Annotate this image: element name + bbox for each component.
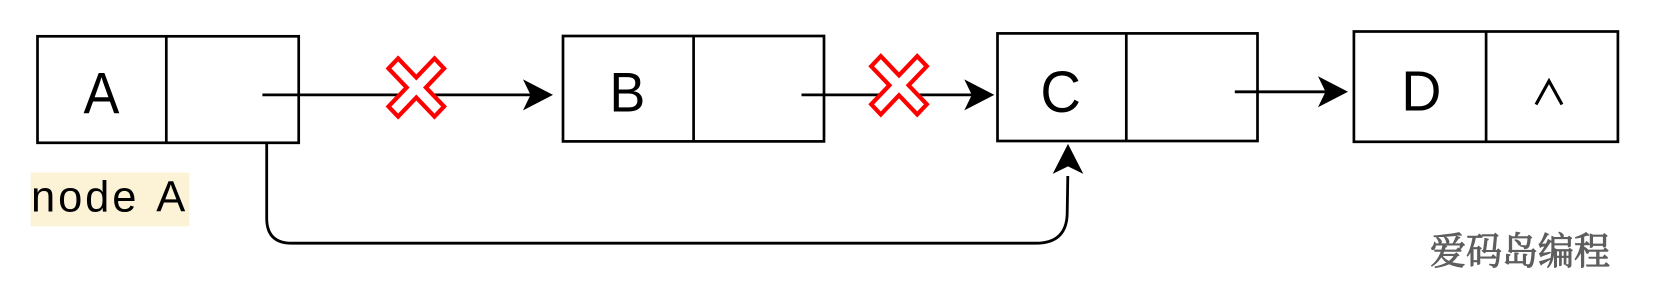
svg-text:D: D	[1401, 59, 1441, 122]
curved wire A to C	[267, 143, 1068, 243]
wire arrow A to B	[262, 94, 531, 97]
node C box	[998, 33, 1258, 141]
red cross X1 over arrow A to B	[389, 58, 445, 116]
watermark 爱码岛编程	[1432, 232, 1610, 267]
label node A highlight	[31, 173, 190, 227]
node A box divider	[165, 36, 168, 143]
arrowhead A to B	[523, 79, 553, 110]
svg-text:A: A	[156, 174, 185, 222]
svg-text:B: B	[609, 62, 645, 124]
red cross X2 over arrow B to C	[871, 56, 927, 114]
arrowhead C to D	[1318, 76, 1348, 107]
node D box	[1354, 32, 1618, 142]
node B box divider	[692, 36, 695, 141]
node D box divider	[1485, 32, 1488, 142]
null marker caret in D	[1536, 81, 1562, 105]
svg-text:node: node	[31, 174, 139, 222]
wire arrow B to C	[802, 94, 973, 97]
arrowhead into C bottom	[1053, 144, 1084, 174]
svg-text:C: C	[1040, 60, 1081, 125]
arrowhead B to C	[964, 79, 994, 110]
node C box divider	[1125, 33, 1128, 141]
svg-text:A: A	[83, 60, 119, 126]
wire arrow C to D	[1235, 90, 1327, 93]
node B box	[563, 36, 824, 141]
node A box	[38, 36, 299, 143]
